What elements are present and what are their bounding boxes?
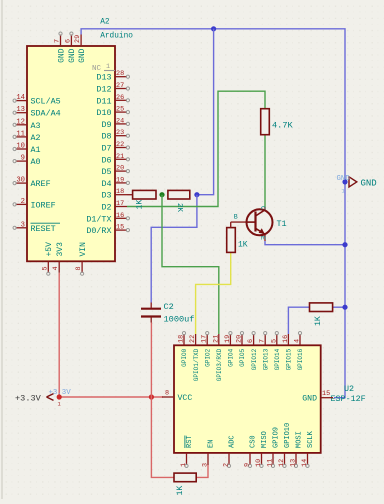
svg-text:GPIO0: GPIO0	[181, 348, 188, 366]
svg-text:6: 6	[64, 39, 72, 43]
svg-text:D2: D2	[101, 203, 111, 213]
resistor 1K EN pullup	[174, 473, 196, 482]
svg-text:8: 8	[165, 390, 169, 398]
svg-text:3: 3	[202, 463, 210, 467]
svg-text:D12: D12	[96, 85, 111, 95]
svg-text:19: 19	[116, 176, 124, 184]
Arduino pin 4 3V3 bottom	[52, 242, 65, 273]
svg-text:A2: A2	[31, 133, 41, 143]
svg-text:GPIO10: GPIO10	[284, 423, 292, 448]
svg-text:D11: D11	[96, 96, 111, 106]
wire C2 bottom to +3.3V rail	[150, 323, 152, 398]
Arduino pin 14 SCL/A5	[13, 94, 61, 107]
svg-text:GPIO14: GPIO14	[274, 348, 281, 370]
svg-text:GND: GND	[68, 48, 77, 63]
svg-text:GPIO4: GPIO4	[228, 348, 235, 366]
svg-text:1: 1	[180, 463, 188, 467]
resistor 1K GPIO15 pulldown	[310, 303, 333, 312]
Arduino pin 26 D11	[96, 94, 129, 107]
Arduino pin 8 VIN bottom	[75, 242, 88, 275]
lead base resistor	[230, 222, 232, 228]
pin 1 +3.3V symbol	[58, 401, 62, 408]
svg-text:E: E	[259, 236, 266, 240]
svg-text:20: 20	[116, 165, 124, 173]
svg-text:MISO: MISO	[261, 431, 269, 448]
svg-text:26: 26	[116, 94, 124, 102]
svg-text:C2: C2	[164, 302, 174, 312]
Arduino pin 22 D7	[101, 141, 129, 154]
junction +3.3V label	[57, 394, 62, 399]
svg-text:EN: EN	[207, 440, 215, 448]
label A2 reference	[100, 19, 110, 27]
svg-text:D10: D10	[96, 108, 111, 118]
svg-text:1: 1	[106, 63, 110, 71]
svg-text:ESP-12F: ESP-12F	[331, 394, 366, 404]
ESP pin 15 GND	[302, 390, 333, 404]
junction GND label	[342, 179, 347, 184]
svg-text:21: 21	[116, 153, 124, 161]
svg-text:29: 29	[74, 35, 82, 43]
Arduino pin 9 A0	[13, 155, 41, 168]
wire Arduino 3V3 down to +3.3V rail	[58, 273, 60, 397]
value 1K pulldown	[314, 316, 323, 326]
svg-text:11: 11	[16, 130, 25, 138]
svg-text:D7: D7	[101, 144, 111, 154]
wire +3.3V rail to ESP VCC	[59, 396, 163, 398]
ESP pin 16 GPIO15	[282, 334, 293, 370]
value 1K base	[238, 241, 248, 250]
wire 4.7K bottom to collector	[264, 135, 266, 207]
svg-text:D9: D9	[101, 120, 111, 130]
svg-text:2: 2	[223, 463, 231, 467]
wire emitter to GND rail	[265, 241, 345, 245]
svg-text:SDA/A4: SDA/A4	[31, 109, 61, 119]
ESP pin 1 RST	[180, 435, 194, 467]
label ESP-12F value	[331, 394, 366, 404]
label T1	[277, 219, 287, 229]
svg-text:17: 17	[116, 200, 124, 208]
svg-text:D5: D5	[101, 167, 111, 177]
svg-text:D6: D6	[101, 155, 111, 165]
global label GND	[349, 177, 377, 189]
net name overlay GND	[337, 175, 351, 183]
wire D3 to 1K divider resistor	[127, 194, 133, 196]
label Arduino value	[100, 33, 133, 41]
ESP pin 9 CS0	[244, 435, 258, 467]
svg-text:17: 17	[201, 335, 209, 343]
svg-text:GND: GND	[337, 175, 351, 183]
svg-text:A3: A3	[31, 121, 41, 131]
svg-text:1000uf: 1000uf	[164, 315, 195, 325]
svg-text:14: 14	[16, 94, 25, 102]
Arduino pin 7 GND top	[54, 32, 67, 63]
svg-text:15: 15	[322, 390, 330, 398]
ESP pin 21 GPIO3/RXD	[212, 334, 223, 381]
Arduino pin 21 D6	[101, 153, 129, 166]
svg-text:13: 13	[290, 459, 298, 467]
wire D2 to 4.7K top (green)	[127, 91, 265, 206]
svg-text:D3: D3	[101, 191, 111, 201]
svg-text:Arduino: Arduino	[100, 33, 133, 41]
svg-text:1K: 1K	[176, 486, 185, 496]
svg-text:8: 8	[75, 266, 83, 270]
pin E emitter	[259, 236, 266, 240]
svg-text:VCC: VCC	[178, 394, 193, 403]
svg-text:1K: 1K	[238, 241, 248, 250]
svg-text:3: 3	[21, 221, 25, 229]
svg-text:20: 20	[236, 335, 244, 343]
svg-text:27: 27	[116, 82, 124, 90]
Arduino pin 29 GND top	[74, 35, 87, 63]
svg-text:CS0: CS0	[249, 435, 257, 448]
ESP pin 11 GPIO9	[267, 427, 281, 468]
wire EN pull-up resistor to ESP EN pin	[196, 465, 208, 477]
wire base resistor to ESP TXD (yellow)	[196, 252, 231, 334]
junction top rail	[211, 26, 216, 31]
svg-text:GPIO2: GPIO2	[204, 348, 211, 366]
svg-text:1K: 1K	[314, 316, 323, 326]
pin 1 GND symbol	[342, 188, 346, 195]
junction 2K right end	[194, 192, 199, 197]
svg-text:23: 23	[116, 129, 124, 137]
junction VCC C2	[149, 394, 154, 399]
svg-text:9: 9	[244, 463, 252, 467]
svg-text:D1/TX: D1/TX	[86, 214, 111, 224]
svg-text:GPIO1/TXD: GPIO1/TXD	[193, 348, 200, 381]
value 2K divider	[175, 203, 183, 213]
Arduino pin 3 RESET	[13, 221, 60, 234]
svg-text:12: 12	[16, 118, 25, 126]
junction emitter-GND	[342, 242, 347, 247]
svg-text:B: B	[234, 214, 238, 221]
ESP pin 20 GPIO5	[236, 332, 247, 367]
Arduino pin 17 D2	[101, 200, 127, 213]
svg-text:14: 14	[301, 459, 309, 467]
svg-text:18: 18	[178, 335, 186, 343]
svg-text:SCL/A5: SCL/A5	[31, 97, 61, 107]
svg-text:GND: GND	[302, 395, 317, 404]
svg-text:GPIO16: GPIO16	[297, 348, 304, 370]
svg-text:1K: 1K	[136, 200, 145, 210]
junction divider midpoint	[159, 192, 164, 197]
svg-text:GPIO15: GPIO15	[286, 348, 293, 370]
svg-text:24: 24	[116, 117, 124, 125]
svg-text:4.7K: 4.7K	[272, 121, 293, 131]
svg-text:A0: A0	[31, 157, 41, 167]
Arduino pin 10 A1	[13, 143, 41, 156]
svg-text:SCLK: SCLK	[307, 430, 315, 448]
Arduino pin 20 D5	[101, 165, 129, 178]
svg-text:IOREF: IOREF	[31, 200, 56, 210]
svg-text:A1: A1	[31, 145, 41, 155]
svg-text:+3.3V: +3.3V	[49, 389, 72, 397]
resistor 4.7K collector	[261, 109, 270, 135]
svg-text:22: 22	[116, 141, 124, 149]
label U2 reference	[344, 384, 354, 394]
Arduino pin 2 IOREF	[13, 198, 56, 211]
value 1K divider	[136, 200, 145, 210]
resistor 2K divider bottom	[168, 190, 190, 199]
svg-text:7: 7	[259, 339, 267, 343]
svg-text:16: 16	[282, 335, 290, 343]
Arduino pin 19 D4	[101, 176, 129, 189]
wire GND branch: top rail down to 2K resistor	[198, 29, 214, 195]
svg-text:GND: GND	[57, 48, 66, 63]
svg-text:AREF: AREF	[31, 179, 51, 189]
Arduino pin 13 SDA/A4	[13, 106, 61, 119]
svg-text:RESET: RESET	[31, 224, 56, 234]
value 1K EN pullup	[176, 486, 185, 496]
wire GPIO15 to pulldown resistor	[288, 307, 309, 334]
svg-text:A2: A2	[100, 19, 110, 27]
wire GND branch to C2 top	[151, 195, 197, 303]
Arduino pin 25 D10	[96, 106, 129, 119]
power label +3.3V	[15, 393, 54, 403]
Arduino pin 28 D13	[96, 70, 129, 83]
svg-text:GPIO12: GPIO12	[251, 348, 258, 370]
svg-text:4: 4	[52, 266, 60, 270]
svg-text:19: 19	[224, 335, 232, 343]
pin B base	[234, 214, 238, 221]
ESP pin 8 VCC	[162, 390, 192, 404]
resistor 1K divider top	[133, 190, 156, 199]
svg-text:U2: U2	[344, 384, 354, 394]
svg-text:9: 9	[21, 155, 25, 163]
svg-text:10: 10	[16, 143, 25, 151]
svg-text:28: 28	[116, 70, 124, 78]
svg-text:22: 22	[189, 335, 197, 343]
svg-text:D4: D4	[101, 179, 111, 189]
wire +3.3V rail down to EN pull-up resistor	[151, 397, 174, 477]
svg-text:+5V: +5V	[45, 242, 54, 257]
svg-text:16: 16	[116, 212, 124, 220]
ESP pin 12 GPIO10	[278, 423, 292, 468]
Arduino pin 15 D0/RX	[86, 224, 129, 237]
svg-text:GPIO9: GPIO9	[272, 427, 280, 448]
ESP pin 2 ADC	[223, 435, 237, 467]
svg-text:GPIO13: GPIO13	[262, 348, 269, 370]
svg-text:18: 18	[116, 188, 124, 196]
svg-text:+3.3V: +3.3V	[15, 393, 42, 403]
svg-text:6: 6	[247, 339, 255, 343]
ESP pin 6 GPIO12	[247, 332, 258, 371]
svg-text:ADC: ADC	[228, 435, 236, 448]
svg-text:4: 4	[294, 339, 302, 343]
ESP-12F U2 body	[174, 345, 321, 453]
Arduino pin 23 D8	[101, 129, 129, 142]
svg-text:5: 5	[41, 266, 49, 270]
svg-text:C: C	[259, 206, 266, 210]
wire divider midpoint to ESP RXD	[162, 195, 219, 334]
Arduino pin 5 +5V bottom	[41, 242, 54, 275]
svg-text:D0/RX: D0/RX	[86, 226, 111, 236]
Arduino pin 11 A2	[13, 130, 41, 143]
Arduino pin 18 D3	[101, 188, 127, 201]
svg-text:12: 12	[278, 459, 286, 467]
junction pulldown-GND	[342, 305, 347, 310]
svg-text:2K: 2K	[175, 203, 183, 213]
svg-text:GPIO5: GPIO5	[239, 348, 246, 366]
ESP pin 4 GPIO16	[294, 332, 305, 371]
ESP pin 7 GPIO13	[259, 332, 270, 371]
svg-text:21: 21	[212, 335, 220, 343]
Arduino pin 27 D12	[96, 82, 129, 95]
svg-text:RST: RST	[186, 435, 194, 448]
Arduino A2 body	[27, 46, 115, 261]
Arduino pin 24 D9	[101, 117, 129, 129]
svg-text:15: 15	[116, 224, 124, 232]
svg-text:VIN: VIN	[79, 242, 88, 257]
Arduino pin 16 D1/TX	[86, 212, 129, 225]
svg-text:GPIO3/RXD: GPIO3/RXD	[216, 348, 223, 381]
svg-text:NC: NC	[92, 65, 102, 73]
Arduino pin 1 NC	[92, 63, 115, 73]
svg-text:GND: GND	[78, 48, 87, 63]
svg-text:MOSI: MOSI	[295, 431, 303, 448]
ESP pin 13 MOSI	[290, 431, 304, 467]
svg-text:D8: D8	[101, 132, 111, 142]
svg-text:7: 7	[54, 39, 62, 43]
ESP pin 14 SCLK	[301, 430, 315, 467]
svg-text:2: 2	[21, 198, 25, 206]
svg-text:T1: T1	[277, 219, 287, 229]
ESP pin 22 GPIO1/TXD	[189, 334, 200, 381]
label C2 value 1000uf	[164, 315, 195, 325]
ESP pin 19 GPIO4	[224, 332, 235, 367]
svg-text:30: 30	[16, 177, 25, 185]
wire GPIO15 pulldown resistor to GND rail	[333, 306, 345, 308]
wire base	[231, 221, 248, 223]
label C2 reference	[164, 302, 174, 312]
wire GND net: Arduino pin29 top rail to right side down to ESP GND	[81, 29, 345, 398]
ESP pin 3 EN	[202, 440, 216, 467]
resistor 1K base	[227, 228, 236, 253]
Arduino pin 12 A3	[13, 118, 41, 131]
capacitor C2	[141, 303, 161, 323]
svg-text:25: 25	[116, 106, 124, 114]
ESP pin 17 GPIO2	[201, 332, 212, 367]
ESP pin 10 MISO	[255, 431, 269, 467]
pin C collector	[259, 206, 266, 210]
svg-text:13: 13	[16, 106, 25, 114]
svg-text:3V3: 3V3	[56, 242, 65, 257]
svg-text:GND: GND	[361, 179, 377, 189]
ESP pin 5 GPIO14	[270, 332, 281, 371]
transistor T1	[247, 207, 273, 241]
Arduino pin 30 AREF	[13, 177, 51, 190]
value 4.7K	[272, 121, 293, 131]
svg-text:5: 5	[270, 339, 278, 343]
svg-text:D13: D13	[96, 73, 111, 83]
svg-text:10: 10	[255, 459, 263, 467]
net name overlay +3.3V	[49, 389, 72, 397]
Arduino pin 6 GND top	[64, 32, 77, 63]
svg-text:11: 11	[267, 459, 275, 467]
ESP pin 18 GPIO0	[178, 332, 189, 367]
